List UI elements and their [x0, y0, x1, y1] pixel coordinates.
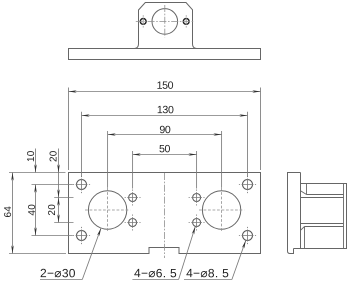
ext lines 150 dim: [68, 88, 70, 171]
top view: left hole vertical tick: [142, 15, 144, 27]
side view: upper chamfer diagonal: [301, 191, 307, 195]
O30 right vertical centerline: [221, 188, 223, 233]
ext lines 50 dim: [132, 151, 134, 189]
dim 20 top leader with arrows at top edge and row2: [58, 149, 60, 198]
svg-text:4−⌀8. 5: 4−⌀8. 5: [186, 266, 229, 280]
front view: hole O6.5 top-left: [129, 194, 137, 202]
front view: hole O8.5 bottom-left: [77, 231, 87, 241]
ext lines 130 dim: [81, 112, 83, 177]
dim line 150: [69, 91, 261, 93]
top view: horizontal centerline: [136, 21, 194, 23]
svg-text:64: 64: [3, 206, 14, 218]
front view: hole O8.5 bottom-right: [243, 231, 253, 241]
svg-text:2−⌀30: 2−⌀30: [40, 266, 76, 280]
ext lines row2/row3 for inner 20 dim: [54, 197, 73, 199]
side view: lower step vertical: [304, 227, 306, 249]
dim line 130: [82, 115, 248, 117]
top view: vertical centerline: [164, 5, 166, 38]
top view: right hole vertical tick: [185, 15, 187, 27]
front view: large bore circle O30 right: [202, 191, 240, 229]
front view: hole O6.5 bottom-left: [129, 219, 137, 227]
side view: upper step vertical: [306, 184, 308, 195]
dim line 64: [12, 173, 14, 254]
dim line 50: [133, 154, 197, 156]
top view: large bore circle: [152, 9, 178, 35]
front view: vertical centerline: [164, 173, 166, 258]
ext lines row1/row4 for 40 dim: [32, 184, 73, 186]
svg-text:40: 40: [27, 204, 38, 216]
front view: hole O8.5 top-left: [77, 180, 87, 190]
svg-text:20: 20: [48, 150, 59, 162]
ext line bottom edge left for 64: [9, 253, 66, 255]
svg-text:90: 90: [159, 124, 171, 136]
ext lines 90 dim: [107, 131, 109, 188]
front view: hole O6.5 bottom-right: [193, 219, 201, 227]
dim line 90: [108, 134, 222, 136]
front view: large bore circle O30 left: [88, 191, 126, 229]
top view: left small hole (bold): [140, 19, 146, 25]
O30 left vertical centerline: [107, 188, 109, 233]
front view: hole O8.5 top-right: [243, 180, 253, 190]
front view: plate outline with bottom center notch: [69, 173, 261, 254]
side view: inner right vertical (end chamfer): [343, 184, 345, 249]
side view: upper bore line: [301, 197, 344, 199]
top view: right small hole (bold): [183, 19, 189, 25]
svg-text:130: 130: [157, 104, 174, 116]
side view: lower counterbore line: [305, 226, 344, 228]
dim 10 leader and arrow to top edge: [35, 149, 37, 173]
front view: hole O6.5 top-right: [193, 194, 201, 202]
top view: base plate bar: [69, 49, 261, 60]
O30 left horizontal centerline: [85, 209, 130, 211]
svg-text:150: 150: [157, 80, 174, 92]
svg-text:4−⌀6. 5: 4−⌀6. 5: [134, 266, 177, 280]
svg-text:50: 50: [159, 143, 171, 155]
side view: lower chamfer diagonal: [301, 227, 305, 231]
dim line inner 20: [58, 198, 60, 223]
svg-text:20: 20: [47, 204, 58, 216]
svg-text:10: 10: [26, 150, 37, 162]
ext line top edge left for 64: [9, 172, 66, 174]
top view: boss outline with chamfered corners and base fillets: [135, 3, 197, 49]
side view: plate back face vertical: [300, 173, 302, 249]
side view: upper counterbore line: [307, 194, 344, 196]
dim line 40: [35, 185, 37, 236]
side view: plate profile with bottom foot: [288, 173, 301, 254]
side view: body outline: [294, 184, 347, 249]
side view: lower bore line: [301, 223, 344, 225]
O30 right horizontal centerline: [199, 209, 244, 211]
